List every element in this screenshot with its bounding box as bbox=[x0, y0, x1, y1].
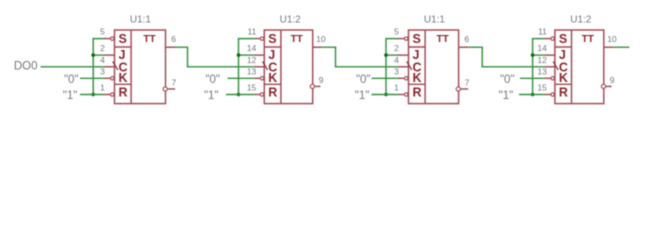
svg-text:1: 1 bbox=[100, 83, 105, 93]
svg-text:2: 2 bbox=[394, 43, 399, 53]
svg-text:U1:2: U1:2 bbox=[570, 15, 592, 26]
svg-text:R: R bbox=[119, 86, 128, 100]
svg-text:R: R bbox=[559, 86, 568, 100]
svg-text:14: 14 bbox=[247, 43, 257, 53]
svg-text:5: 5 bbox=[100, 27, 105, 37]
svg-text:U1:1: U1:1 bbox=[130, 15, 152, 26]
svg-text:R: R bbox=[268, 86, 277, 100]
svg-text:TT: TT bbox=[436, 34, 448, 45]
svg-text:"0": "0" bbox=[205, 74, 220, 86]
svg-text:K: K bbox=[559, 71, 568, 85]
svg-text:K: K bbox=[413, 71, 422, 85]
svg-text:S: S bbox=[268, 32, 276, 46]
svg-text:"0": "0" bbox=[500, 74, 515, 86]
svg-text:S: S bbox=[559, 32, 567, 46]
svg-text:3: 3 bbox=[100, 66, 105, 76]
svg-text:"0": "0" bbox=[356, 74, 371, 86]
svg-text:U1:2: U1:2 bbox=[280, 15, 302, 26]
svg-text:9: 9 bbox=[319, 75, 324, 85]
svg-text:1: 1 bbox=[394, 83, 399, 93]
svg-text:TT: TT bbox=[291, 34, 303, 45]
svg-text:"1": "1" bbox=[204, 90, 219, 102]
svg-text:9: 9 bbox=[610, 75, 615, 85]
svg-text:15: 15 bbox=[247, 83, 257, 93]
svg-text:12: 12 bbox=[537, 55, 547, 65]
svg-text:TT: TT bbox=[582, 34, 594, 45]
svg-text:"0": "0" bbox=[64, 74, 79, 86]
svg-text:7: 7 bbox=[465, 77, 470, 87]
svg-text:6: 6 bbox=[464, 34, 469, 44]
svg-text:15: 15 bbox=[537, 83, 547, 93]
svg-text:13: 13 bbox=[247, 66, 257, 76]
svg-text:4: 4 bbox=[394, 55, 399, 65]
svg-text:K: K bbox=[268, 71, 277, 85]
svg-text:5: 5 bbox=[394, 27, 399, 37]
svg-text:R: R bbox=[413, 86, 422, 100]
svg-text:"1": "1" bbox=[355, 90, 370, 102]
svg-text:11: 11 bbox=[247, 27, 256, 37]
svg-text:4: 4 bbox=[100, 55, 105, 65]
svg-text:S: S bbox=[119, 32, 127, 46]
svg-text:2: 2 bbox=[100, 43, 105, 53]
svg-text:14: 14 bbox=[537, 43, 547, 53]
svg-text:10: 10 bbox=[316, 34, 326, 44]
svg-text:13: 13 bbox=[537, 66, 547, 76]
svg-text:S: S bbox=[413, 32, 421, 46]
svg-text:"1": "1" bbox=[499, 90, 514, 102]
svg-text:12: 12 bbox=[247, 55, 257, 65]
svg-text:DO0: DO0 bbox=[14, 60, 38, 72]
svg-text:3: 3 bbox=[394, 66, 399, 76]
svg-text:U1:1: U1:1 bbox=[424, 15, 446, 26]
svg-text:7: 7 bbox=[172, 77, 177, 87]
svg-text:10: 10 bbox=[607, 34, 617, 44]
svg-text:K: K bbox=[119, 71, 128, 85]
svg-text:11: 11 bbox=[538, 27, 547, 37]
svg-text:6: 6 bbox=[171, 34, 176, 44]
svg-text:TT: TT bbox=[143, 34, 155, 45]
svg-text:"1": "1" bbox=[63, 90, 78, 102]
